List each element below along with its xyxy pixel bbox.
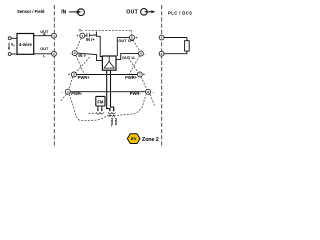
svg-text:4: 4 [67,90,69,94]
svg-text:1: 1 [81,34,83,38]
svg-text:FM: FM [97,100,104,105]
svg-text:PWR+: PWR+ [78,75,91,80]
svg-text:+: + [68,73,70,77]
svg-text:+: + [143,73,145,77]
svg-text:3: 3 [73,73,75,77]
svg-text:4-wire: 4-wire [19,42,33,47]
svg-text:8: 8 [147,90,149,94]
svg-text:PWR+: PWR+ [110,118,114,127]
svg-text:IN I+: IN I+ [86,37,95,42]
svg-text:TI+: TI+ [79,28,84,32]
svg-text:7: 7 [139,73,141,77]
svg-text:6: 6 [140,52,142,56]
svg-text:OUT U+: OUT U+ [118,38,133,43]
svg-text:I+: I+ [43,32,46,36]
svg-text:Zone 2: Zone 2 [142,137,159,143]
svg-text:2: 2 [74,51,76,55]
svg-text:Ex: Ex [131,136,137,141]
svg-text:OUT: OUT [126,9,138,15]
svg-text:PWR+: PWR+ [125,75,138,80]
svg-text:IN I-: IN I- [78,53,86,58]
svg-text:Sensor / Field: Sensor / Field [17,9,45,14]
svg-text:PWR-: PWR- [71,91,83,96]
svg-text:OUT: OUT [40,47,49,51]
svg-text:IN: IN [61,9,66,15]
svg-text:PWR-: PWR- [130,91,142,96]
svg-text:PWR-: PWR- [114,118,118,126]
svg-text:PLC / DCS: PLC / DCS [168,10,192,15]
svg-text:+: + [76,34,78,38]
svg-text:OUT U-: OUT U- [122,55,136,60]
svg-text:+: + [135,36,137,40]
